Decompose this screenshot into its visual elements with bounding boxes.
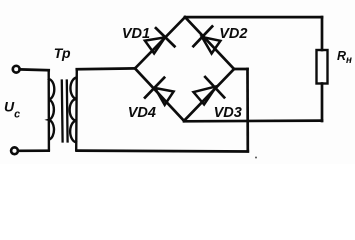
svg-text:Тр: Тр (54, 45, 71, 61)
wire: top vertex to top-right corner (185, 16, 322, 19)
resistor RH body (317, 50, 328, 84)
svg-text:Rн: Rн (337, 49, 352, 66)
svg-text:Uс: Uс (4, 99, 20, 121)
svg-text:VD2: VD2 (219, 26, 247, 42)
wire: bottom vertex to load bottom (184, 119, 322, 122)
wire: secondary top to bridge left node (77, 67, 135, 70)
diode VD4 cathode bar (145, 78, 164, 98)
transformer core (62, 81, 68, 142)
wire: primary winding to bottom terminal (18, 149, 48, 152)
transformer Tp primary winding (49, 70, 55, 149)
diode VD4 triangle (155, 88, 174, 105)
diode VD3 triangle (194, 86, 217, 104)
transformer Tp secondary winding (70, 69, 77, 150)
speck (255, 157, 257, 159)
wire: bridge edge VD2 (top to right vertex) (185, 17, 234, 69)
wire: bridge edge VD1 (left to top vertex) (135, 17, 185, 68)
svg-text:VD3: VD3 (214, 105, 242, 121)
wire: right side down to load (321, 17, 324, 50)
diode VD1 triangle (145, 37, 165, 53)
wire: load bottom lead (321, 84, 324, 122)
wire: top terminal to primary winding (20, 68, 49, 71)
diode VD3 cathode bar (205, 77, 224, 97)
diode VD2 cathode bar (193, 26, 212, 46)
input terminal top-left (13, 66, 20, 73)
wire: right vertex down to bottom rail (246, 69, 249, 151)
wire: bridge edge VD3 (bottom to right vertex) (184, 69, 234, 121)
wire: bottom rail secondary to right (77, 149, 248, 153)
svg-text:VD1: VD1 (122, 26, 150, 42)
diode VD1 cathode bar (156, 28, 175, 46)
wire: right vertex stub (234, 68, 248, 71)
diode VD2 triangle (202, 37, 220, 54)
input terminal bottom-left (11, 147, 18, 154)
wire: bridge edge VD4 (bottom to left vertex) (135, 68, 184, 120)
svg-text:VD4: VD4 (128, 105, 156, 121)
